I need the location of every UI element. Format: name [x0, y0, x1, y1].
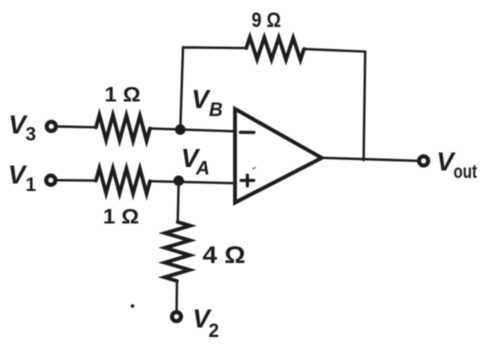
- svg-text:1 Ω: 1 Ω: [103, 206, 139, 229]
- svg-text:4 Ω: 4 Ω: [203, 242, 246, 269]
- svg-text:2: 2: [209, 321, 220, 342]
- svg-text:B: B: [209, 100, 223, 121]
- svg-text:1: 1: [26, 175, 37, 196]
- svg-text:out: out: [454, 162, 478, 183]
- svg-text:9 Ω: 9 Ω: [252, 9, 282, 32]
- svg-text:A: A: [195, 158, 210, 179]
- svg-text:1 Ω: 1 Ω: [105, 84, 141, 107]
- svg-text:3: 3: [26, 124, 37, 145]
